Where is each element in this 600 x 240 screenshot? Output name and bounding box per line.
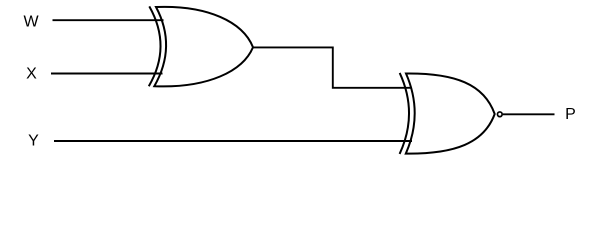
wire W input (53, 19, 164, 21)
xor gate U1 input curve (149, 6, 161, 86)
wire gate1 output to gate2 input (252, 47, 412, 87)
svg-text:P: P (565, 106, 576, 123)
xnor gate U2 output bubble (497, 112, 502, 117)
wire P output (503, 113, 555, 115)
xnor gate U2 input curve (400, 73, 409, 154)
svg-text:X: X (26, 65, 37, 82)
wire Y input (54, 140, 412, 142)
svg-text:W: W (23, 13, 39, 30)
xnor gate U2 body (406, 73, 495, 153)
wire X input (51, 73, 163, 75)
svg-text:Y: Y (28, 133, 39, 150)
xor gate U1 body (154, 7, 253, 87)
